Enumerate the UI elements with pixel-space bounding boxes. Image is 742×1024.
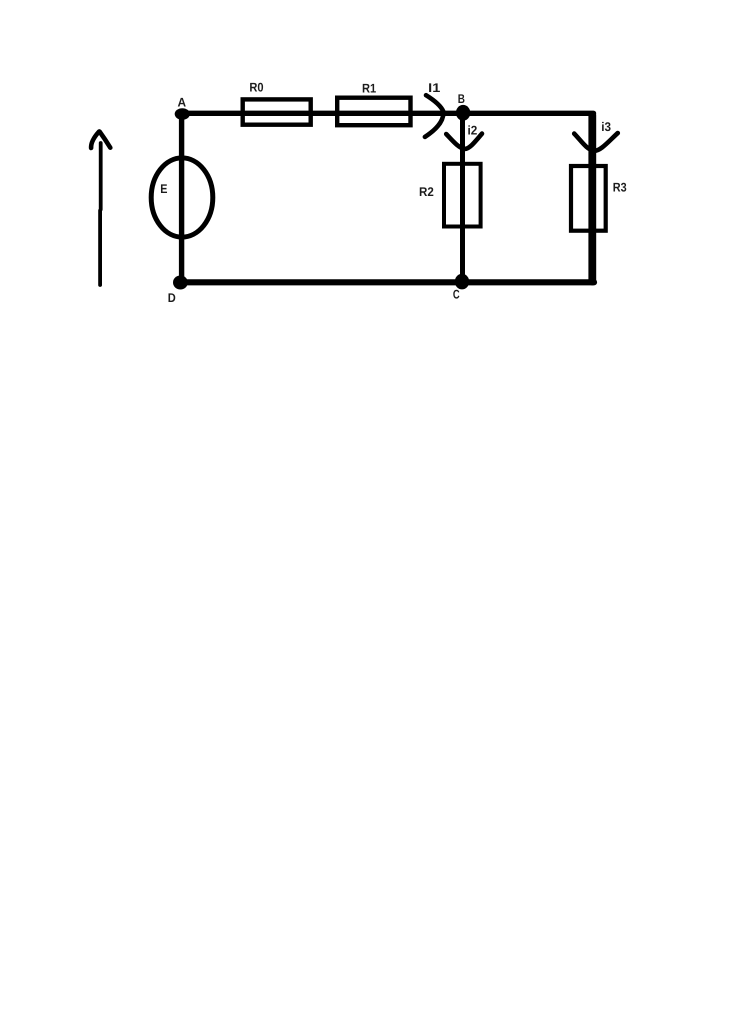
svg-text:C: C (453, 288, 460, 302)
svg-text:B: B (458, 92, 465, 106)
svg-text:D: D (168, 291, 176, 305)
svg-text:R1: R1 (362, 81, 376, 95)
svg-text:R3: R3 (613, 181, 627, 195)
svg-text:E: E (160, 182, 167, 196)
svg-text:I1: I1 (428, 81, 440, 95)
svg-text:A: A (178, 95, 187, 109)
svg-text:R0: R0 (249, 81, 263, 95)
svg-text:R2: R2 (419, 185, 434, 199)
svg-text:i2: i2 (468, 124, 478, 138)
svg-text:i3: i3 (601, 120, 611, 134)
